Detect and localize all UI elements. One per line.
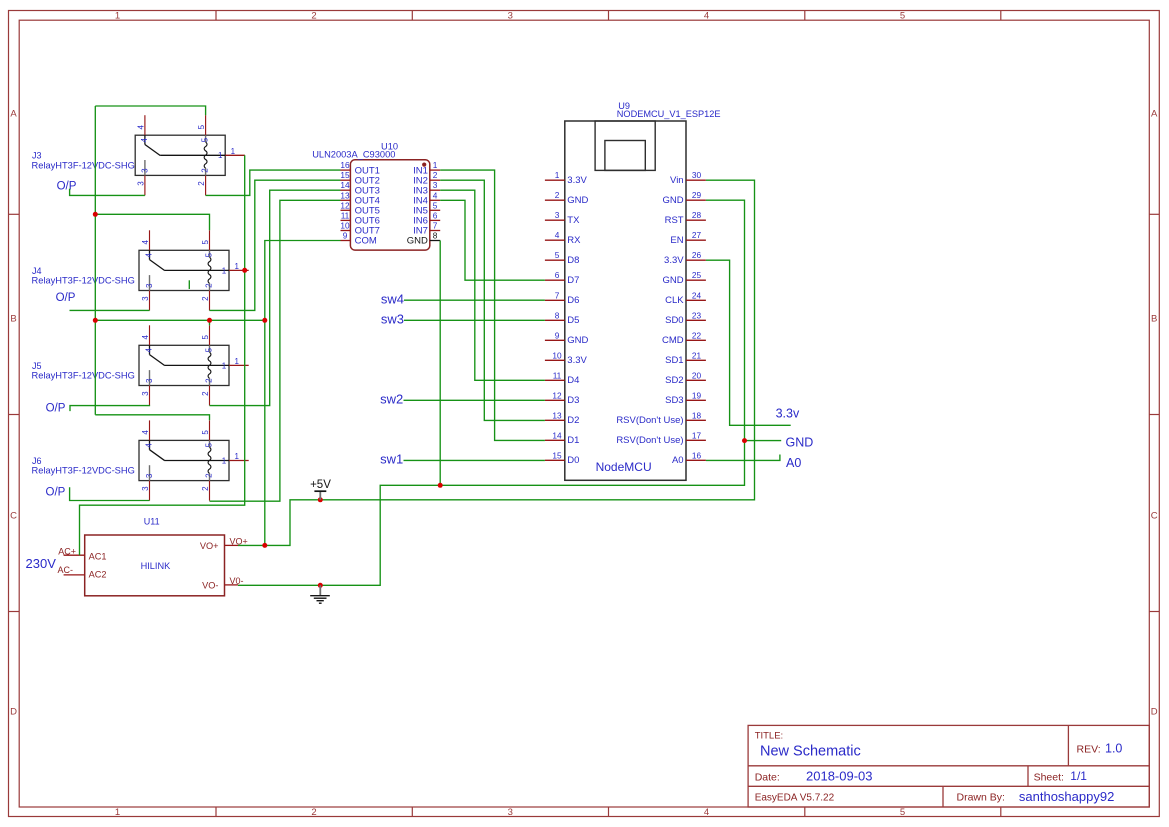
svg-text:GND: GND (662, 275, 683, 286)
svg-text:19: 19 (692, 390, 702, 400)
wire: U10 IN4 to U9 D7 (440, 200, 545, 280)
U10 pin 1 IN1 (413, 160, 440, 176)
U10 pin 7 IN7 (413, 221, 440, 237)
svg-text:AC+: AC+ (58, 547, 76, 557)
U10 pin 14 OUT3 (340, 180, 380, 196)
U9 pin 16 A0 (672, 450, 706, 466)
svg-text:4: 4 (433, 190, 438, 200)
svg-text:NODEMCU_V1_ESP12E: NODEMCU_V1_ESP12E (617, 109, 721, 119)
relay J3 RelayHT3F-12VDC-SHG (32, 115, 245, 195)
svg-text:D: D (1151, 706, 1158, 717)
svg-text:D: D (10, 706, 17, 717)
svg-text:A0: A0 (672, 455, 684, 466)
junction U10 GND (438, 483, 443, 488)
svg-text:4: 4 (145, 443, 154, 448)
svg-text:C: C (1151, 510, 1158, 521)
U9 pin 5 D8 (545, 250, 580, 266)
svg-text:D3: D3 (567, 395, 579, 406)
U11 pin AC1 (58, 547, 106, 562)
U10 pin 8 GND (407, 231, 440, 247)
svg-text:26: 26 (692, 250, 702, 260)
svg-text:GND: GND (662, 195, 683, 206)
U10 pin 2 IN2 (413, 170, 440, 186)
svg-text:3: 3 (141, 391, 150, 396)
wire: U10 IN1 to U9 D1 (440, 170, 545, 440)
svg-text:3.3V: 3.3V (567, 175, 587, 186)
svg-text:5: 5 (197, 124, 206, 129)
svg-text:10: 10 (552, 350, 562, 360)
svg-text:22: 22 (692, 330, 702, 340)
wire: U9 A0 pin16 to A0 label (706, 455, 780, 461)
svg-text:New Schematic: New Schematic (760, 744, 861, 760)
svg-text:4: 4 (555, 230, 560, 240)
U9 pin 8 D5 (545, 310, 580, 326)
svg-text:1: 1 (222, 266, 227, 275)
svg-text:3.3v: 3.3v (776, 407, 800, 421)
svg-text:U11: U11 (144, 517, 160, 527)
U9 pin 10 3.3V (545, 350, 588, 366)
U11 pin VO- (202, 576, 243, 591)
svg-text:3: 3 (140, 168, 149, 173)
svg-text:20: 20 (692, 370, 702, 380)
svg-text:EN: EN (670, 235, 683, 246)
svg-text:sw3: sw3 (381, 312, 404, 327)
svg-text:12: 12 (552, 390, 562, 400)
U10 pin 6 IN6 (413, 210, 440, 226)
svg-text:1: 1 (222, 456, 227, 465)
U10 pin 16 OUT1 (340, 160, 380, 176)
svg-text:J6: J6 (32, 456, 42, 466)
wire: J3 O/P to pin 3 (70, 189, 145, 196)
svg-text:3: 3 (508, 10, 513, 21)
svg-text:4: 4 (145, 348, 154, 353)
svg-text:5: 5 (204, 442, 213, 447)
junction ground symbol (318, 583, 323, 588)
svg-text:RSV(Don't Use): RSV(Don't Use) (616, 415, 683, 426)
net label O/P (J6 output) (46, 486, 66, 498)
svg-text:sw1: sw1 (380, 452, 403, 467)
svg-text:VO-: VO- (202, 581, 218, 591)
U9 pin 11 D4 (545, 370, 580, 386)
svg-text:1/1: 1/1 (1070, 769, 1087, 783)
junction J4 pin1 (242, 268, 247, 273)
svg-text:2: 2 (433, 170, 438, 180)
svg-text:2: 2 (201, 296, 210, 301)
wire: U10 IN2 to U9 D2 (440, 180, 545, 420)
junction +5V symbol (318, 497, 323, 502)
wire: relay common bus J3 pin1 to AC1 (80, 155, 245, 555)
svg-text:J4: J4 (32, 266, 42, 276)
U9 pin 2 GND (545, 190, 589, 206)
svg-text:1: 1 (234, 452, 239, 461)
svg-text:D4: D4 (567, 375, 579, 386)
U10 pin 13 OUT4 (340, 190, 380, 206)
svg-text:2: 2 (201, 168, 210, 173)
svg-text:11: 11 (341, 210, 350, 220)
U10 pin 3 IN3 (413, 180, 440, 196)
svg-text:15: 15 (340, 170, 350, 180)
U9 pin 17 RSV(Don't Use) (616, 430, 706, 446)
svg-text:GND: GND (567, 195, 588, 206)
wire: J6 coil top branch from bus (95, 415, 209, 421)
svg-text:4: 4 (141, 430, 150, 435)
U9 pin 29 GND (662, 190, 705, 206)
svg-text:6: 6 (555, 270, 560, 280)
IC U10 ULN2003A_C93000 (312, 141, 430, 250)
svg-text:2: 2 (201, 391, 210, 396)
svg-text:CLK: CLK (665, 295, 684, 306)
svg-text:GND: GND (407, 236, 428, 247)
svg-text:AC2: AC2 (89, 570, 107, 580)
svg-text:30: 30 (692, 170, 702, 180)
net label 230V (AC mains) (26, 556, 57, 571)
svg-text:230V: 230V (26, 556, 57, 571)
svg-text:5: 5 (201, 240, 210, 245)
svg-text:4: 4 (141, 240, 150, 245)
svg-text:2: 2 (311, 807, 316, 818)
svg-text:4: 4 (704, 10, 709, 21)
wire: J4 coil top branch from bus (95, 214, 209, 230)
U9 pin 9 GND (545, 330, 589, 346)
svg-text:7: 7 (433, 221, 438, 231)
svg-text:D8: D8 (567, 255, 579, 266)
svg-text:11: 11 (553, 370, 562, 380)
svg-text:21: 21 (692, 350, 702, 360)
svg-text:27: 27 (692, 230, 702, 240)
svg-text:2: 2 (555, 190, 560, 200)
wire: U10 OUT2 to J4 coil (pin 2) (210, 180, 341, 310)
svg-text:GND: GND (786, 436, 814, 450)
svg-text:5: 5 (204, 252, 213, 257)
svg-text:1: 1 (234, 357, 239, 366)
wire: +5V rail VO+ to U9 Vin pin30 (238, 180, 755, 545)
wire: U10 OUT1 to J3 coil (pin 2) (206, 170, 341, 195)
svg-text:16: 16 (340, 160, 350, 170)
U9 pin 30 Vin (670, 170, 706, 186)
U9 pin 12 D3 (545, 390, 580, 406)
U10 pin 12 OUT5 (340, 200, 380, 216)
svg-text:7: 7 (555, 290, 560, 300)
svg-text:3.3V: 3.3V (567, 355, 587, 366)
svg-text:3.3V: 3.3V (664, 255, 684, 266)
svg-text:CMD: CMD (662, 335, 684, 346)
U9 pin 26 3.3V (664, 250, 706, 266)
relay J6 RelayHT3F-12VDC-SHG (32, 420, 249, 500)
U9 pin 7 D6 (545, 290, 580, 306)
svg-text:EasyEDA V5.7.22: EasyEDA V5.7.22 (755, 793, 835, 804)
net label O/P (J5 output) (46, 403, 66, 415)
svg-text:1: 1 (555, 170, 560, 180)
svg-text:HILINK: HILINK (141, 561, 171, 571)
junction GND label (742, 438, 747, 443)
wire: J4 O/P to pin 3 (70, 309, 150, 311)
svg-text:1.0: 1.0 (1105, 742, 1122, 756)
U9 pin 20 SD2 (665, 370, 706, 386)
svg-text:O/P: O/P (46, 403, 66, 415)
svg-text:O/P: O/P (56, 292, 76, 304)
svg-text:4: 4 (141, 335, 150, 340)
svg-text:5: 5 (900, 807, 905, 818)
svg-text:SD2: SD2 (665, 375, 683, 386)
relay J5 RelayHT3F-12VDC-SHG (32, 325, 249, 405)
svg-text:Date:: Date: (755, 771, 780, 783)
U9 pin 22 CMD (662, 330, 706, 346)
wire: GND label tap (745, 440, 782, 442)
svg-text:B: B (1151, 313, 1157, 324)
svg-text:16: 16 (692, 450, 702, 460)
svg-text:O/P: O/P (57, 180, 77, 192)
svg-text:RST: RST (665, 215, 684, 226)
svg-text:2: 2 (311, 10, 316, 21)
svg-text:2: 2 (205, 283, 214, 288)
junction J5 pin5 (207, 318, 212, 323)
U9 pin 25 GND (662, 270, 705, 286)
wire: ground net U9 GND pin29 to VO- (238, 200, 745, 585)
U10 pin 10 OUT7 (340, 221, 380, 237)
wire: U10 GND pin8 down to ground net (439, 241, 441, 486)
U9 pin 6 D7 (545, 270, 580, 286)
U10 pin 4 IN4 (413, 190, 440, 206)
svg-text:14: 14 (552, 430, 562, 440)
U9 pin 27 EN (670, 230, 706, 246)
svg-text:8: 8 (555, 310, 560, 320)
svg-text:REV:: REV: (1077, 743, 1101, 755)
svg-text:1: 1 (231, 147, 236, 156)
svg-text:VO+: VO+ (200, 541, 219, 551)
svg-text:15: 15 (552, 450, 562, 460)
wire: U10 COM pin9 to +5V net (265, 241, 341, 546)
wire: J6 O/P to pin 3 (70, 487, 150, 500)
svg-text:10: 10 (340, 221, 350, 231)
svg-text:RelayHT3F-12VDC-SHG: RelayHT3F-12VDC-SHG (32, 276, 135, 286)
U10 pin 9 COM (341, 231, 377, 247)
svg-text:SD0: SD0 (665, 315, 683, 326)
svg-text:9: 9 (343, 231, 348, 241)
svg-text:GND: GND (567, 335, 588, 346)
svg-text:sw4: sw4 (381, 291, 404, 306)
svg-text:2: 2 (197, 181, 206, 186)
U9 pin 4 RX (545, 230, 581, 246)
U10 pin 1 orientation dot (422, 163, 426, 167)
svg-text:1: 1 (433, 160, 438, 170)
U9 pin 13 D2 (545, 410, 580, 426)
svg-text:RSV(Don't Use): RSV(Don't Use) (616, 435, 683, 446)
svg-text:C: C (10, 510, 17, 521)
wire: J5 O/P to pin 3 (70, 406, 150, 412)
U10 pin 5 IN5 (413, 200, 440, 216)
svg-text:3: 3 (145, 283, 154, 288)
svg-text:Sheet:: Sheet: (1034, 771, 1064, 783)
ground symbol (earth) (310, 585, 330, 603)
svg-text:29: 29 (692, 190, 702, 200)
wire: U10 OUT4 to J6 coil (pin 2) (210, 200, 341, 501)
U9 pin 23 SD0 (665, 310, 706, 326)
svg-text:J3: J3 (32, 151, 42, 161)
svg-text:2: 2 (201, 486, 210, 491)
svg-text:A: A (10, 109, 17, 120)
svg-text:14: 14 (340, 180, 350, 190)
svg-text:3: 3 (141, 486, 150, 491)
wire: U10 IN3 to U9 D4 (440, 190, 545, 380)
title block (748, 725, 1149, 807)
svg-text:V0-: V0- (230, 576, 244, 586)
svg-text:3: 3 (141, 296, 150, 301)
wire: sw4 to U9 D6 (404, 299, 545, 301)
svg-text:25: 25 (692, 270, 702, 280)
svg-text:RelayHT3F-12VDC-SHG: RelayHT3F-12VDC-SHG (32, 466, 135, 476)
wire: sw2 to U9 D3 (404, 399, 545, 401)
U10 pin 15 OUT2 (340, 170, 380, 186)
wire: J3 coil top loop to bus (95, 106, 205, 115)
svg-text:B: B (10, 313, 16, 324)
svg-text:A0: A0 (786, 456, 801, 470)
svg-text:RelayHT3F-12VDC-SHG: RelayHT3F-12VDC-SHG (32, 371, 135, 381)
svg-text:3: 3 (145, 473, 154, 478)
svg-text:4: 4 (704, 807, 709, 818)
svg-text:5: 5 (900, 10, 905, 21)
svg-text:3: 3 (145, 378, 154, 383)
svg-text:9: 9 (555, 330, 560, 340)
wire: J5 coil top branch from bus (95, 319, 264, 321)
U9 pin 19 SD3 (665, 390, 706, 406)
svg-text:AC-: AC- (58, 565, 74, 575)
U9 pin 18 RSV(Don't Use) (616, 410, 706, 426)
wire: sw3 to U9 D5 (404, 319, 545, 321)
U9 pin 28 RST (665, 210, 706, 226)
svg-text:RelayHT3F-12VDC-SHG: RelayHT3F-12VDC-SHG (32, 160, 135, 170)
svg-text:4: 4 (145, 253, 154, 258)
svg-text:D5: D5 (567, 315, 579, 326)
svg-text:D6: D6 (567, 295, 579, 306)
svg-text:sw2: sw2 (380, 392, 403, 407)
U9 pin 1 3.3V (545, 170, 588, 186)
svg-text:17: 17 (692, 430, 702, 440)
wire: U9 3.3V pin26 to 3.3v label (706, 260, 791, 425)
svg-text:AC1: AC1 (89, 551, 107, 561)
svg-text:3: 3 (555, 210, 560, 220)
junction bus/J4 coil (93, 212, 98, 217)
svg-text:O/P: O/P (46, 486, 66, 498)
junction +5V/COM (262, 318, 267, 323)
svg-text:2018-09-03: 2018-09-03 (806, 768, 873, 783)
svg-text:1: 1 (115, 807, 120, 818)
svg-text:1: 1 (218, 151, 223, 160)
svg-text:ULN2003A_C93000: ULN2003A_C93000 (312, 150, 395, 160)
svg-text:13: 13 (552, 410, 562, 420)
svg-text:+5V: +5V (310, 479, 331, 491)
svg-text:D2: D2 (567, 415, 579, 426)
svg-text:A: A (1151, 109, 1158, 120)
svg-text:santhoshappy92: santhoshappy92 (1019, 789, 1114, 804)
U9 pin 3 TX (545, 210, 580, 226)
wire: stray stub inside J4 (188, 280, 190, 289)
module U11 HILINK (AC-DC converter) (85, 517, 225, 596)
svg-text:COM: COM (355, 236, 377, 247)
svg-text:4: 4 (136, 124, 145, 129)
svg-text:1: 1 (234, 262, 239, 271)
svg-text:5: 5 (201, 137, 210, 142)
svg-text:23: 23 (692, 310, 702, 320)
svg-text:SD1: SD1 (665, 355, 683, 366)
svg-text:D7: D7 (567, 275, 579, 286)
svg-text:2: 2 (205, 378, 214, 383)
svg-text:3: 3 (136, 181, 145, 186)
IC U9 NODEMCU_V1_ESP12E (565, 101, 721, 481)
net label O/P (J3 output) (57, 180, 77, 192)
wire: +12V coil bus vertical (left side) (94, 106, 96, 415)
svg-text:5: 5 (204, 347, 213, 352)
svg-text:D0: D0 (567, 455, 579, 466)
junction VO+ (262, 543, 267, 548)
svg-text:2: 2 (205, 473, 214, 478)
svg-text:8: 8 (433, 231, 438, 241)
U9 pin 24 CLK (665, 290, 706, 306)
svg-text:SD3: SD3 (665, 395, 683, 406)
svg-text:D1: D1 (567, 435, 579, 446)
U9 pin 14 D1 (545, 430, 580, 446)
svg-text:6: 6 (433, 210, 438, 220)
junction bus/J5 coil (93, 318, 98, 323)
wire: J5 pin5 drop from coil branch (209, 320, 211, 325)
svg-text:24: 24 (692, 290, 702, 300)
U11 pin VO+ (200, 536, 248, 551)
wire: U10 OUT3 to J5 coil (pin 2) (210, 190, 341, 405)
svg-text:5: 5 (555, 250, 560, 260)
svg-text:5: 5 (201, 335, 210, 340)
svg-text:1: 1 (222, 361, 227, 370)
svg-text:Drawn By:: Drawn By: (957, 792, 1005, 804)
svg-text:18: 18 (692, 410, 702, 420)
svg-text:TX: TX (567, 215, 580, 226)
svg-text:Vin: Vin (670, 175, 684, 186)
svg-text:1: 1 (115, 10, 120, 21)
svg-text:TITLE:: TITLE: (755, 731, 784, 742)
net label O/P (J4 output) (56, 292, 76, 304)
svg-text:5: 5 (433, 200, 438, 210)
svg-text:NodeMCU: NodeMCU (596, 460, 652, 474)
U11 pin AC2 (58, 565, 107, 580)
U9 pin 15 D0 (545, 450, 580, 466)
wire: sw1 to U9 D0 (404, 459, 545, 461)
U10 pin 11 OUT6 (341, 210, 380, 226)
svg-text:3: 3 (433, 180, 438, 190)
svg-text:13: 13 (340, 190, 350, 200)
relay J4 RelayHT3F-12VDC-SHG (32, 230, 249, 310)
svg-text:28: 28 (692, 210, 702, 220)
svg-text:RX: RX (567, 235, 581, 246)
svg-text:4: 4 (140, 137, 149, 142)
power flag +5V (310, 479, 331, 500)
svg-text:12: 12 (340, 200, 350, 210)
svg-text:3: 3 (508, 807, 513, 818)
svg-text:5: 5 (201, 430, 210, 435)
svg-text:J5: J5 (32, 361, 42, 371)
U9 pin 21 SD1 (665, 350, 706, 366)
